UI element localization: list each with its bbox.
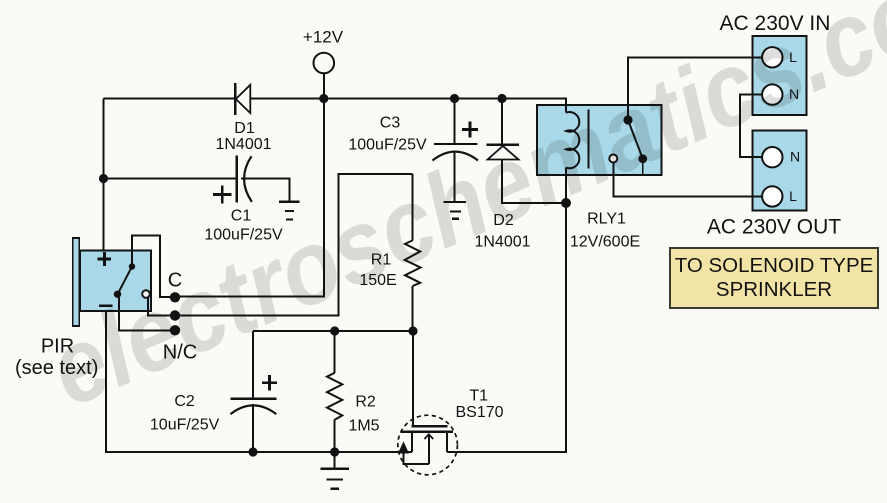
svg-text:SPRINKLER: SPRINKLER: [716, 278, 832, 301]
wire: PIR blade-top to C terminal: [132, 236, 171, 298]
diode D1: [235, 83, 250, 115]
solenoid note box: [670, 248, 878, 308]
svg-text:L: L: [789, 188, 797, 204]
wire: relay common up to AC L in: [628, 57, 763, 120]
svg-text:N: N: [790, 149, 800, 165]
wire: node A riser down to drain: [447, 203, 566, 452]
node dot relay coil bottom: [561, 198, 571, 208]
ground for C3: [444, 202, 467, 219]
relay closed contact dot: [638, 154, 647, 163]
svg-text:1N4001: 1N4001: [215, 136, 271, 153]
wire: D2 top lead: [501, 99, 503, 145]
PIR module body: [80, 251, 151, 312]
terminal dot N/C: [170, 325, 180, 335]
wire: +12V riser down to PIR C wire: [175, 99, 324, 297]
node dot C3 top: [450, 94, 459, 103]
svg-text:AC 230V OUT: AC 230V OUT: [707, 216, 841, 239]
svg-text:C1: C1: [231, 208, 252, 225]
svg-text:100uF/25V: 100uF/25V: [348, 137, 427, 154]
wire: R1 top lead: [412, 174, 414, 240]
wire: +12V terminal stub: [323, 74, 325, 99]
wire: middle terminal to R1 top: [175, 174, 413, 316]
terminal dot middle: [170, 310, 180, 320]
wire: PIR pivot to N/C terminal: [119, 296, 171, 331]
svg-text:BS170: BS170: [455, 404, 503, 421]
svg-text:T1: T1: [469, 388, 488, 405]
AC out N terminal circle: [762, 147, 782, 167]
PIR minus sign: [99, 304, 113, 307]
AC in L terminal circle: [762, 47, 782, 67]
wire: R1 bottom lead: [412, 286, 414, 331]
capacitor C3: [433, 121, 479, 160]
wire: left vertical from rail to PIR +: [103, 99, 105, 251]
PIR pivot contact dot: [114, 291, 121, 298]
svg-text:TO SOLENOID TYPE: TO SOLENOID TYPE: [675, 254, 874, 277]
wire: +12V top rail right segment into relay coil: [250, 99, 566, 113]
wire: gate node horizontal: [253, 330, 413, 332]
wire: D2 bottom lead to relay node: [502, 160, 566, 204]
wire: C2 top lead: [252, 331, 254, 399]
svg-text:+12V: +12V: [303, 28, 344, 47]
PIR switch blade: [118, 267, 133, 295]
resistor R1 150E: [405, 240, 421, 286]
wire: R2 top lead: [334, 331, 336, 373]
wire: C3 bottom lead to ground: [454, 152, 456, 202]
PIR NO contact circle: [142, 290, 150, 298]
node dot R2 bottom: [330, 447, 339, 456]
ground for C1: [279, 202, 300, 220]
AC in N terminal circle: [762, 84, 782, 104]
node dot C1 tee: [99, 174, 108, 183]
wire: R2 bottom lead: [334, 420, 336, 452]
svg-text:C2: C2: [174, 393, 195, 410]
transistor T1 BS170 MOSFET: [398, 415, 458, 475]
+12V supply terminal circle: [314, 53, 335, 74]
wire: relay NO contact to AC L out: [613, 163, 762, 197]
AC 230V OUT terminal block: [753, 131, 807, 211]
relay core line: [587, 109, 589, 168]
wire: AC N in to AC N out link: [740, 95, 763, 158]
ground for R2: [321, 469, 349, 489]
relay closed contact stub: [642, 159, 644, 176]
resistor R2 1M5: [327, 373, 342, 420]
relay coil: [566, 112, 579, 168]
svg-text:C3: C3: [380, 115, 401, 132]
wire: C2 bottom lead: [252, 404, 254, 452]
wire: relay coil tail to node A: [565, 168, 567, 203]
svg-text:10uF/25V: 10uF/25V: [150, 417, 220, 434]
node dot R2 top: [330, 326, 339, 335]
node dot gate: [408, 326, 417, 335]
relay RLY1 body: [537, 105, 662, 175]
node dot D2 top: [497, 94, 506, 103]
svg-text:12V/600E: 12V/600E: [570, 234, 640, 251]
capacitor C1: [213, 156, 252, 204]
terminal dot C: [170, 292, 180, 302]
relay common contact dot: [623, 115, 632, 124]
wire: C1 branch right to ground: [241, 179, 290, 202]
node dot C2 bottom: [248, 447, 257, 456]
svg-text:1M5: 1M5: [348, 418, 379, 435]
relay switch blade: [628, 120, 643, 159]
AC 230V IN terminal block: [753, 36, 807, 115]
wire: PIR NO contact to middle terminal: [148, 297, 171, 316]
capacitor C2: [230, 375, 277, 414]
wire: R2 ground stem: [334, 452, 336, 469]
wire: +12V top rail left segment: [104, 98, 236, 100]
svg-text:D1: D1: [234, 120, 255, 137]
node dot +12V: [319, 94, 328, 103]
relay NO contact circle: [609, 155, 617, 163]
PIR plus sign: [98, 252, 112, 266]
wire: C3 top lead: [454, 99, 456, 145]
svg-text:RLY1: RLY1: [587, 211, 626, 228]
svg-text:R2: R2: [355, 394, 376, 411]
AC out L terminal circle: [762, 186, 782, 206]
wire: gate drop to MOSFET: [412, 331, 414, 425]
wire: C1 branch left: [104, 178, 237, 180]
PIR blade tip dot: [129, 263, 135, 269]
wire: PIR minus drop and ground rail to source: [106, 311, 412, 452]
PIR module lens bar: [73, 238, 80, 326]
diode D2: [487, 145, 519, 160]
